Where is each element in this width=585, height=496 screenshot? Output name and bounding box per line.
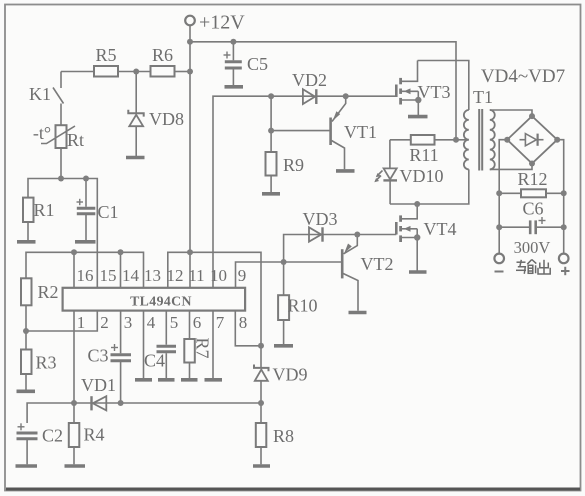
svg-text:C1: C1 <box>97 202 118 222</box>
junction pin16 on wire A <box>71 249 77 255</box>
MOSFET VT4 <box>396 204 417 271</box>
ground VT4 <box>409 270 427 274</box>
junction pin1-R4 on VD1 row <box>71 400 77 406</box>
capacitor C6 <box>499 217 564 234</box>
svg-text:+12V: +12V <box>199 12 245 34</box>
junction R2-R3 divider node <box>23 328 29 334</box>
svg-text:16: 16 <box>77 266 94 285</box>
capacitor C3 on pin3 <box>111 311 132 403</box>
svg-text:6: 6 <box>193 313 202 332</box>
junction C6 left <box>496 224 502 230</box>
svg-text:VD4~VD7: VD4~VD7 <box>481 66 565 87</box>
junction bridge left vertex <box>504 137 510 143</box>
LED VD10 <box>374 140 397 204</box>
svg-text:R10: R10 <box>287 296 317 316</box>
svg-text:T1: T1 <box>473 87 493 107</box>
resistor R9 <box>266 96 277 192</box>
wire T1 secondary bottom to bridge <box>490 164 532 170</box>
svg-text:R2: R2 <box>37 282 58 302</box>
junction bridge top vertex <box>529 113 535 119</box>
zener diode VD8 <box>128 72 143 157</box>
transformer T1 <box>464 109 495 171</box>
svg-text:C4: C4 <box>144 351 165 371</box>
resistor R2 <box>21 278 32 331</box>
svg-text:14: 14 <box>122 266 140 285</box>
svg-text:VT2: VT2 <box>361 254 394 274</box>
wire T1 primary bottom to VT4 drain <box>390 169 469 204</box>
wire VT3 drain to T1 primary top <box>418 61 469 111</box>
svg-text:VD9: VD9 <box>273 365 308 385</box>
junction pin11 +12V on wire B <box>187 249 193 255</box>
svg-text:VD10: VD10 <box>400 166 444 186</box>
junction C3 bottom on VD1 row <box>118 400 124 406</box>
svg-text:R8: R8 <box>273 426 294 446</box>
ground R7 <box>181 378 198 382</box>
wire R2-R3 node to pin2 <box>26 311 97 331</box>
wire bridge minus rail <box>499 140 507 254</box>
ground R9 <box>262 192 280 196</box>
wire VD1 row <box>27 403 261 423</box>
ground C1 <box>75 240 96 244</box>
resistor R6 <box>151 66 175 77</box>
resistor R10 <box>278 262 289 344</box>
capacitor C4 on pin5 <box>157 311 177 379</box>
svg-text:VD1: VD1 <box>81 375 116 395</box>
wire node Rt-R1-C1-pin15 <box>28 179 97 288</box>
svg-text:2: 2 <box>100 313 109 332</box>
junction +12V rail at terminal <box>187 39 193 45</box>
junction pin8 at VD9 column <box>258 343 264 349</box>
junction VT1 base branch <box>268 128 274 134</box>
svg-text:11: 11 <box>188 266 204 285</box>
ground VT3 <box>408 115 428 119</box>
junction VD9-R8 on VD1 row <box>258 400 264 406</box>
junction C6 right <box>561 224 567 230</box>
wire pin4 to ground <box>143 311 145 379</box>
resistor R7 on pin6 <box>184 311 195 379</box>
diode VD3 <box>309 227 323 241</box>
wire VD3 row <box>284 235 397 263</box>
bridge rectifier VD4-VD7 <box>507 116 557 163</box>
junction VT3 source-body <box>415 97 421 103</box>
junction VT1 emitter on VD2 row <box>343 93 349 99</box>
switch K1 <box>53 72 64 126</box>
junction VT4 source-body <box>414 234 420 240</box>
wire pin7 to ground <box>212 311 214 379</box>
wire pin9 row <box>236 262 342 288</box>
terminal output plus <box>559 254 570 276</box>
resistor R4 <box>69 403 80 464</box>
junction pin14 on wire A <box>118 249 124 255</box>
ground pin7 <box>205 378 223 382</box>
svg-text:VT1: VT1 <box>344 122 377 142</box>
resistor R3 <box>21 331 32 390</box>
junction VT2 collector on VD3 row <box>354 232 360 238</box>
svg-text:C6: C6 <box>522 199 543 219</box>
resistor R5 <box>94 66 118 77</box>
wire +12V rail <box>190 42 456 140</box>
svg-text:3: 3 <box>124 313 133 332</box>
junction R10 top on pin9 row <box>281 259 287 265</box>
ground VT2 <box>349 311 367 315</box>
svg-text:R12: R12 <box>517 169 547 189</box>
MOSFET VT3 <box>396 61 418 116</box>
junction R9 top on VD2 row <box>268 93 274 99</box>
wire +12V drop to pin 11 <box>189 42 191 253</box>
svg-text:R1: R1 <box>33 200 54 220</box>
svg-text:12: 12 <box>167 266 184 285</box>
resistor R1 <box>23 198 34 241</box>
junction R5-R6-VD8 node <box>133 69 139 75</box>
ground VT1 <box>336 169 355 173</box>
junction Rt bottom node <box>58 176 64 182</box>
ground R3 <box>17 389 36 393</box>
svg-text:R5: R5 <box>95 45 116 65</box>
svg-text:8: 8 <box>239 313 248 332</box>
svg-text:7: 7 <box>216 313 225 332</box>
svg-text:C3: C3 <box>87 346 108 366</box>
wire T1 secondary top to bridge <box>490 110 532 116</box>
ground VD8 <box>126 156 145 160</box>
svg-text:K1: K1 <box>29 84 51 104</box>
svg-text:5: 5 <box>170 313 179 332</box>
wire pin16 stub <box>73 252 75 287</box>
ground R10 <box>274 344 293 348</box>
wire pin8 jog <box>235 311 261 346</box>
wire R5 row <box>61 71 190 73</box>
svg-text:C2: C2 <box>42 426 63 446</box>
junction R6 right at +12V column <box>187 69 193 75</box>
svg-text:VD3: VD3 <box>303 209 338 229</box>
terminal output minus <box>494 254 504 272</box>
svg-text:VT3: VT3 <box>418 82 451 102</box>
svg-text:VD2: VD2 <box>292 70 327 90</box>
junction VT4 drain on primary bottom wire <box>414 201 420 207</box>
ground R8 <box>253 464 270 468</box>
junction C5 top on rail <box>230 39 236 45</box>
zener diode VD9 <box>254 365 269 404</box>
svg-text:9: 9 <box>238 266 247 285</box>
junction bridge bottom vertex <box>529 161 535 167</box>
resistor R11 <box>390 135 456 145</box>
svg-text:Rt: Rt <box>67 130 84 150</box>
transistor VT1 <box>271 96 346 169</box>
wire pin10 to VD2 row <box>213 96 396 288</box>
wire pin1 column <box>73 311 75 403</box>
junction R12 right <box>561 190 567 196</box>
junction R12 left <box>496 190 502 196</box>
svg-text:R3: R3 <box>35 353 56 373</box>
ground R1 <box>17 240 36 244</box>
svg-text:1: 1 <box>77 313 86 332</box>
svg-text:TL494CN: TL494CN <box>130 294 192 309</box>
capacitor C2 <box>17 423 38 464</box>
label output chinese shu chu <box>516 260 550 275</box>
wire B right top rail <box>168 252 261 367</box>
svg-text:R6: R6 <box>152 45 173 65</box>
thermistor Rt <box>41 125 75 178</box>
svg-text:VD8: VD8 <box>149 109 184 129</box>
ground pin4 <box>135 378 152 382</box>
resistor R8 <box>256 403 266 464</box>
svg-text:R4: R4 <box>83 425 104 445</box>
ground C4 <box>158 378 175 382</box>
svg-text:10: 10 <box>210 266 227 285</box>
svg-text:4: 4 <box>147 313 156 332</box>
diode VD2 <box>303 89 316 104</box>
ground R4 <box>65 464 86 468</box>
wire bridge plus rail <box>557 140 564 254</box>
ground C5 <box>225 85 244 89</box>
svg-text:VT4: VT4 <box>424 219 457 239</box>
svg-text:-t°: -t° <box>33 123 51 143</box>
wire pin11 stub <box>189 252 191 287</box>
svg-text:15: 15 <box>100 266 117 285</box>
junction C1 top node <box>83 176 89 182</box>
wire pin14 stub <box>120 252 122 287</box>
ground C2 <box>16 464 38 468</box>
IC U1 TL494CN body <box>63 288 246 311</box>
junction bridge right vertex <box>554 137 560 143</box>
svg-text:R7: R7 <box>193 337 213 358</box>
svg-text:R9: R9 <box>283 155 304 175</box>
svg-text:300V: 300V <box>514 238 551 257</box>
wire A left top rail <box>26 252 144 287</box>
capacitor C1 <box>77 179 96 241</box>
junction T1 center tap <box>453 137 459 143</box>
svg-text:13: 13 <box>144 266 161 285</box>
terminal +12V <box>185 16 195 42</box>
svg-text:R11: R11 <box>409 145 438 165</box>
transistor VT2 <box>342 235 358 311</box>
diode VD1 <box>92 396 107 410</box>
capacitor C5 <box>224 42 242 86</box>
resistor R12 <box>499 189 564 197</box>
wire T1 center tap <box>456 139 469 141</box>
svg-text:C5: C5 <box>247 54 268 74</box>
